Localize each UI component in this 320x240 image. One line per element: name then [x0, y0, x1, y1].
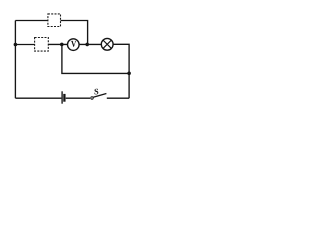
- switch S: [91, 89, 107, 99]
- component box 2 (dashed placeholder, middle branch): [35, 38, 49, 52]
- wire: bypass branch from node A down and right: [62, 44, 129, 73]
- wire: box 2 to voltmeter: [48, 43, 67, 45]
- wire: bottom from left vertical to battery: [15, 97, 61, 99]
- wire: voltmeter to lamp: [79, 43, 101, 45]
- wire: switch to bottom-right corner: [107, 97, 129, 99]
- node A: junction dot left of voltmeter: [60, 43, 64, 47]
- battery B1: [62, 91, 64, 103]
- wire: left vertical (battery negative riser): [14, 21, 16, 99]
- component box 1 (dashed placeholder, top branch): [48, 14, 61, 27]
- wire: top branch left segment: [15, 20, 48, 22]
- background: [0, 0, 141, 114]
- node: junction dot on left vertical (middle branch tap): [14, 43, 18, 47]
- node B: junction dot right of voltmeter: [85, 43, 89, 47]
- wire: battery to switch: [66, 97, 90, 99]
- node: junction dot where bypass meets right vertical: [127, 72, 131, 76]
- wire: middle branch from left vertical to box 2: [15, 44, 34, 46]
- voltmeter U1: [68, 39, 80, 51]
- lamp L1 (circle with X): [101, 38, 113, 50]
- wire: top branch right segment with drop to node B: [61, 21, 88, 45]
- wire: lamp to right vertical, down to bottom: [113, 44, 129, 98]
